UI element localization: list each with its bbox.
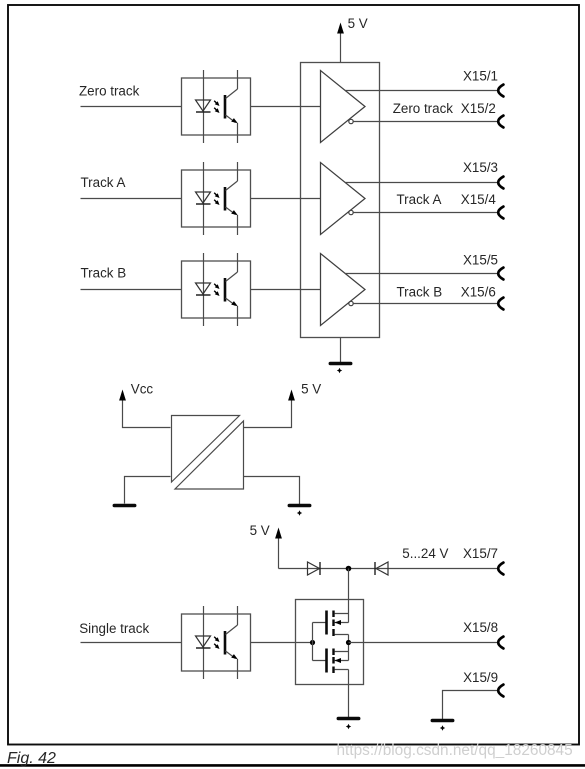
svg-text:X15/1: X15/1: [463, 69, 498, 84]
svg-text:5...24 V: 5...24 V: [402, 546, 448, 561]
svg-text:Fig. 42: Fig. 42: [7, 750, 56, 767]
svg-text:Zero track: Zero track: [393, 101, 454, 116]
svg-text:5 V: 5 V: [348, 16, 368, 31]
svg-text:X15/2: X15/2: [461, 101, 496, 116]
svg-text:Track A: Track A: [81, 175, 126, 190]
svg-text:X15/7: X15/7: [463, 546, 498, 561]
svg-text:5 V: 5 V: [301, 382, 321, 397]
svg-text:X15/3: X15/3: [463, 160, 498, 175]
svg-text:Track B: Track B: [397, 285, 443, 300]
svg-text:X15/4: X15/4: [461, 192, 497, 207]
svg-text:X15/6: X15/6: [461, 285, 496, 300]
svg-text:Track B: Track B: [81, 265, 127, 280]
svg-text:X15/5: X15/5: [463, 252, 498, 267]
svg-text:Track A: Track A: [397, 192, 442, 207]
svg-text:Single track: Single track: [79, 621, 149, 636]
svg-text:X15/8: X15/8: [463, 620, 498, 635]
svg-text:https://blog.csdn.net/qq_18260: https://blog.csdn.net/qq_18260845: [337, 742, 573, 759]
svg-text:Vcc: Vcc: [131, 382, 154, 397]
svg-text:5 V: 5 V: [250, 523, 270, 538]
svg-text:X15/9: X15/9: [463, 670, 498, 685]
svg-text:Zero track: Zero track: [79, 84, 140, 99]
